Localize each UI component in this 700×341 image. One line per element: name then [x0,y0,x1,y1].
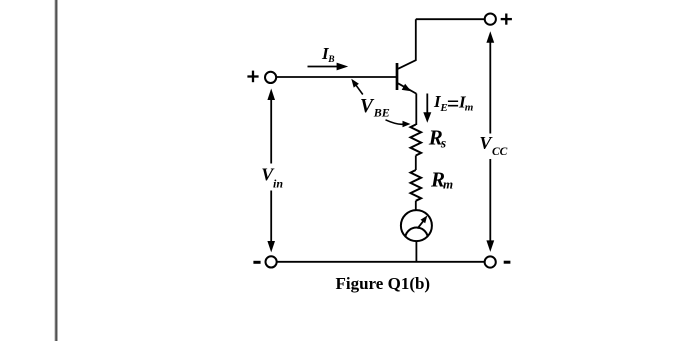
svg-text:V: V [360,96,375,117]
source arrow Vin [267,89,275,253]
svg-text:m: m [443,177,453,192]
meter M1 (galvanometer) [401,210,432,241]
wire: bottom rail [277,261,485,263]
svg-text:BE: BE [373,106,390,120]
resistor Rs [411,125,422,156]
svg-text:s: s [440,135,446,150]
transistor Q1 [397,19,416,93]
terminal: Vcc - (bottom-right) [485,256,496,267]
label: + (Vcc) [501,14,512,25]
wire: Rs to Rm [415,156,417,171]
svg-text:Figure Q1(b): Figure Q1(b) [336,274,431,293]
label: - (input) [253,261,260,264]
wire: emitter to Rs [415,94,417,126]
svg-text:B: B [327,55,334,65]
label: - (Vcc) [504,261,511,264]
wire: top rail [416,18,485,20]
arrow V_BE to Rs [386,120,411,127]
svg-text:m: m [465,102,474,114]
label: + (input top-left) [247,71,258,83]
terminal: Vcc + (top-right) [485,14,496,25]
svg-text:in: in [273,176,283,190]
arrow I_E [423,94,431,123]
wire: base input [276,76,396,78]
arrow V_BE to base wire [351,79,363,95]
arrow Vcc [486,31,494,252]
svg-text:=: = [447,91,460,116]
svg-text:CC: CC [492,146,508,158]
terminal: input - (bottom-left) [266,256,277,267]
terminal: input + (top-left) [265,72,276,83]
resistor Rm [411,170,422,201]
arrow I_B [308,63,349,71]
wire: Rm to meter [415,201,417,210]
wire: meter to bottom rail [415,241,417,262]
